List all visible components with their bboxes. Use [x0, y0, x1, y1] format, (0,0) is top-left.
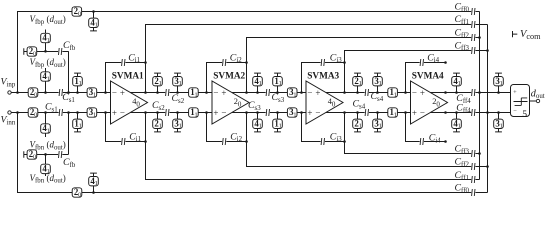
junction top rail V_fbp 4_1 tap — [44, 91, 47, 94]
junction C_i2 bottom at output vertical — [245, 140, 248, 143]
label V_fbp (d_out) at rail — [30, 57, 66, 69]
switch 4_1 bottom stage4 with V_com tee — [452, 113, 462, 132]
svg-text:+: + — [315, 88, 320, 98]
junction C_i3 top at output vertical — [343, 61, 346, 64]
switch 3_1 bottom input rail — [87, 107, 97, 118]
label C_s1 top — [62, 92, 75, 104]
svg-text:+: + — [513, 89, 517, 96]
svg-text:1: 1 — [293, 111, 296, 118]
svg-text:1: 1 — [500, 80, 503, 87]
label C_i3 top — [330, 52, 342, 64]
capacitor C_ff1 top — [471, 20, 475, 28]
wire summing-node vertical left — [479, 12, 481, 180]
svg-text:−: − — [307, 88, 312, 98]
svg-text:+: + — [213, 108, 218, 118]
switch 3_1 top input rail — [87, 87, 97, 98]
wire bottom V_fbn via 4_1 branch at input rail — [45, 113, 47, 138]
switch 2_0 bottom C_fb row — [27, 149, 37, 160]
svg-text:1: 1 — [95, 180, 98, 187]
junction input bottom node — [16, 111, 19, 114]
junction C_i1 bottom at output vertical — [144, 140, 147, 143]
switch 4_1 bottom V_fbn to rail — [41, 123, 51, 134]
junction top rail 3_1 tap at comparator — [497, 91, 500, 94]
label V_fbn (d_out) lower — [30, 173, 66, 185]
capacitor C_fb bottom — [58, 150, 62, 158]
label C_ff3 top bus — [455, 40, 470, 52]
capacitor C_s1 bottom — [59, 108, 63, 116]
switch 4_1 top C_fb row to V_fbp — [41, 33, 51, 44]
junction bottom bus 4_1 tap — [92, 191, 95, 194]
svg-text:1: 1 — [47, 75, 50, 82]
capacitor C_s1 top — [59, 88, 63, 96]
switch 1_1 top stage2 with V_com tee — [273, 73, 283, 92]
junction C_i1 top at output vertical — [144, 61, 147, 64]
svg-text:−: − — [213, 88, 218, 98]
label C_ff2 top bus — [455, 28, 470, 40]
junction SVMA2 bottom output node — [245, 111, 248, 114]
V_com tee top C_fb row — [24, 48, 27, 54]
wire SVMA2 bottom output to C_ff2 bus — [247, 113, 488, 167]
wire C_i1 top feedback loop — [106, 63, 146, 93]
junction C_i4 top at output vertical — [444, 61, 447, 64]
junction bottom rail 1_1 tap — [76, 111, 79, 114]
junction left summing vertical at top rail — [478, 91, 481, 94]
switch 2_0 top input rail — [28, 87, 38, 98]
junction C_ff2 bottom on right summing vertical — [486, 165, 489, 168]
wire C_i4 top feedback loop — [406, 63, 446, 93]
label C_ff0 bottom bus — [455, 183, 470, 195]
svg-text:1: 1 — [195, 111, 198, 118]
wire comparator output — [530, 100, 537, 102]
switch 1_1 series bottom stage3 — [388, 107, 398, 118]
wire bottom rail (negative signal path) — [11, 112, 510, 114]
label C_s4 top — [371, 91, 384, 103]
label V_fbn (d_out) at rail — [30, 140, 66, 152]
switch 2_1 top stage3 with V_com tee — [353, 73, 363, 92]
svg-text:0: 0 — [33, 153, 36, 160]
capacitor C_ff2 top — [471, 33, 475, 41]
svg-text:1: 1 — [379, 123, 382, 130]
switch 2_0 bottom input rail — [28, 107, 38, 118]
label C_s4 bottom — [353, 99, 366, 111]
junction SVMA4 bottom input node — [404, 111, 407, 114]
capacitor C_ff4 bottom — [471, 108, 475, 116]
wire SVMA3 bottom output to C_ff3 bus — [345, 113, 480, 154]
capacitor C_i2 bottom — [222, 137, 226, 145]
capacitor C_ff0 top — [471, 7, 475, 15]
junction C_i2 top at output vertical — [245, 61, 248, 64]
svg-text:−: − — [120, 108, 125, 118]
switch 4_1 top stage2 with V_com tee — [253, 73, 263, 92]
svg-text:1: 1 — [394, 91, 397, 98]
switch 3_1 series top stage2 — [287, 87, 297, 98]
junction SVMA1 top input node — [104, 91, 107, 94]
switch 2_1 bottom stage3 with V_com tee — [353, 113, 363, 132]
junction SVMA3 top output node — [343, 91, 346, 94]
label C_ff1 bottom bus — [455, 170, 470, 182]
junction input top node — [16, 91, 19, 94]
junction C_i4 bottom at output vertical — [444, 140, 447, 143]
label V_com legend — [520, 29, 541, 41]
svg-text:+: + — [412, 108, 417, 118]
label C_i1 top — [128, 52, 140, 64]
svg-text:1: 1 — [95, 22, 98, 29]
switch 3_1 top comparator with V_com tee — [494, 73, 504, 92]
junction bottom rail 4_1 tap stage2 — [256, 111, 259, 114]
switch 1_1 series top stage3 — [388, 87, 398, 98]
svg-text:1: 1 — [458, 123, 461, 130]
svg-text:−: − — [221, 108, 226, 118]
junction SVMA4 top input node — [404, 91, 407, 94]
wire C_i4 bottom feedback loop — [406, 113, 446, 142]
capacitor C_ff1 bottom — [471, 175, 475, 183]
svg-text:+: + — [307, 108, 312, 118]
capacitor C_s3 bottom — [266, 108, 270, 116]
terminal V_inn — [8, 111, 11, 114]
svg-text:1: 1 — [47, 37, 50, 44]
svg-text:1: 1 — [379, 80, 382, 87]
capacitor C_s4 bottom — [365, 108, 369, 116]
capacitor C_ff2 bottom — [471, 162, 475, 170]
label C_s2 bottom — [152, 100, 165, 112]
junction top C_fb row 4_1 tap — [44, 50, 47, 53]
switch 1_1 top input with V_com tee — [73, 73, 83, 92]
junction top rail 3_1 tap stage1 — [176, 91, 179, 94]
switch 2_0 top C_fb row — [27, 46, 37, 57]
switch 3_1 bottom comparator with V_com tee — [494, 113, 504, 132]
junction SVMA4 top output node — [444, 91, 447, 94]
legend V_com tee symbol — [513, 31, 518, 37]
capacitor C_i3 bottom — [321, 137, 325, 145]
comparator U5 with hysteresis — [511, 85, 530, 121]
junction top rail 1_1 tap — [76, 91, 79, 94]
capacitor C_ff3 top — [471, 46, 475, 54]
junction bottom rail 3_1 tap at comparator — [497, 111, 500, 114]
wire bottom V_fbn via 4_1 branch at C_fb row — [45, 154, 47, 176]
capacitor C_ff3 bottom — [471, 149, 475, 157]
capacitor C_i3 top — [321, 58, 325, 66]
svg-text:−: − — [112, 88, 117, 98]
op-amp SVMA1 — [111, 71, 148, 124]
junction top rail 4_1 tap stage2 — [256, 91, 259, 94]
svg-text:−: − — [315, 108, 320, 118]
svg-text:1: 1 — [359, 123, 362, 130]
svg-text:1: 1 — [259, 123, 262, 130]
junction C_ff2 top on left summing vertical — [478, 36, 481, 39]
capacitor C_s3 top — [266, 88, 270, 96]
label C_i1 bottom — [129, 131, 141, 143]
capacitor C_s2 bottom — [165, 108, 169, 116]
svg-text:1: 1 — [159, 80, 162, 87]
svg-text:1: 1 — [93, 111, 96, 118]
switch 3_1 bottom stage1 with V_com tee — [173, 113, 183, 132]
junction C_i3 bottom at output vertical — [343, 140, 346, 143]
svg-text:−: − — [420, 108, 425, 118]
svg-text:1: 1 — [47, 127, 50, 134]
switch 1_1 series bottom stage1 — [189, 107, 199, 118]
switch 4_1 top V_fbp to rail — [41, 71, 51, 82]
label V_fbp (d_out) upper — [30, 14, 66, 26]
capacitor C_ff0 bottom — [471, 188, 475, 196]
switch 1_1 series top stage1 — [189, 87, 199, 98]
svg-text:0: 0 — [78, 191, 81, 198]
wire C_i3 bottom feedback loop — [302, 113, 345, 142]
wire C_i2 bottom feedback loop — [207, 113, 247, 142]
svg-text:5: 5 — [522, 109, 527, 120]
wire SVMA3 top output to C_ff3 bus — [345, 51, 488, 93]
wire C_i2 top feedback loop — [207, 63, 247, 93]
capacitor C_i4 bottom — [420, 137, 424, 145]
junction bottom rail 2_1 tap stage3 — [356, 111, 359, 114]
wire SVMA2 top output to C_ff2 bus — [247, 38, 480, 93]
switch 2_1 bottom stage1 with V_com tee — [153, 113, 163, 132]
label C_ff4 bottom — [456, 103, 471, 115]
capacitor C_i2 top — [222, 58, 226, 66]
capacitor C_s2 top — [165, 88, 169, 96]
wire bottom feed-forward bus from input node (C_ff0 net) — [18, 113, 488, 193]
svg-text:0: 0 — [34, 91, 37, 98]
label C_i2 top — [230, 52, 242, 64]
label C_s1 bottom — [45, 102, 58, 114]
svg-text:+: + — [112, 108, 117, 118]
svg-text:SVMA4: SVMA4 — [412, 71, 444, 81]
svg-text:SVMA2: SVMA2 — [213, 71, 245, 81]
junction bottom rail 3_1 tap stage3 — [376, 111, 379, 114]
op-amp SVMA4 — [411, 71, 448, 124]
junction SVMA3 top input node — [300, 91, 303, 94]
label C_fb top — [63, 40, 76, 52]
label C_ff3 bottom bus — [455, 144, 470, 156]
label C_s2 top — [172, 93, 185, 105]
junction C_ff3 bottom on left summing vertical — [478, 152, 481, 155]
switch 1_1 bottom input with V_com tee — [73, 113, 83, 132]
junction top rail 3_1 tap stage3 — [376, 91, 379, 94]
wire C_i3 top feedback loop — [302, 63, 345, 93]
wire bottom C_fb feedback row — [26, 113, 68, 155]
wire top rail (positive signal path) — [11, 92, 510, 94]
svg-text:+: + — [420, 88, 425, 98]
svg-text:1: 1 — [458, 80, 461, 87]
label C_s3 bottom — [248, 100, 261, 112]
junction top bus 4_1 tap — [92, 10, 95, 13]
label C_fb bottom — [63, 157, 76, 169]
switch 4_1 top bus with V_com tee — [89, 12, 99, 31]
junction right summing vertical at bottom rail — [486, 111, 489, 114]
capacitor C_s4 top — [365, 88, 369, 96]
svg-text:0: 0 — [78, 10, 81, 17]
svg-text:1: 1 — [279, 80, 282, 87]
junction SVMA2 top input node — [205, 91, 208, 94]
switch 3_1 top stage1 with V_com tee — [173, 73, 183, 92]
svg-text:SVMA3: SVMA3 — [307, 71, 339, 81]
junction C_ff3 top on right summing vertical — [486, 49, 489, 52]
svg-text:1: 1 — [79, 123, 82, 130]
junction top rail C_fb tap — [67, 91, 70, 94]
capacitor C_fb top — [58, 47, 62, 55]
wire SVMA1 bottom output to C_ff1 bus — [146, 113, 480, 180]
junction top rail 4_1 tap stage4 — [455, 91, 458, 94]
junction SVMA1 top output node — [144, 91, 147, 94]
svg-text:+: + — [221, 88, 226, 98]
svg-text:1: 1 — [259, 80, 262, 87]
wire SVMA1 top output to C_ff1 bus — [146, 25, 488, 93]
svg-text:1: 1 — [359, 80, 362, 87]
label C_i3 bottom — [330, 131, 342, 143]
junction SVMA1 bottom output node — [144, 111, 147, 114]
svg-text:+: + — [120, 88, 125, 98]
svg-text:1: 1 — [195, 91, 198, 98]
label C_ff0 top bus — [455, 2, 470, 14]
junction top rail 2_1 tap stage3 — [356, 91, 359, 94]
junction top rail 1_1 tap stage2 — [276, 91, 279, 94]
junction bottom rail 1_1 tap stage2 — [276, 111, 279, 114]
junction bottom rail 3_1 tap stage1 — [176, 111, 179, 114]
terminal V_inp — [8, 91, 11, 94]
wire summing-node vertical right — [487, 25, 489, 193]
switch 4_1 bottom bus with V_com tee — [89, 173, 99, 192]
junction bottom rail C_fb tap — [67, 111, 70, 114]
svg-text:−: − — [513, 108, 517, 115]
switch 2_1 top stage1 with V_com tee — [153, 73, 163, 92]
label C_s3 top — [272, 92, 285, 104]
switch 3_1 bottom stage3 with V_com tee — [373, 113, 383, 132]
svg-text:SVMA1: SVMA1 — [112, 71, 144, 81]
label C_i2 bottom — [230, 131, 242, 143]
label C_ff2 bottom bus — [455, 157, 470, 169]
switch 2_0 top feed-forward bus — [72, 6, 82, 17]
switch 4_1 bottom C_fb row to V_fbn — [41, 164, 51, 175]
svg-text:1: 1 — [179, 80, 182, 87]
junction bottom C_fb row 4_1 tap — [44, 153, 47, 156]
junction SVMA2 bottom input node — [205, 111, 208, 114]
capacitor C_i4 top — [420, 58, 424, 66]
wire C_i1 bottom feedback loop — [106, 113, 146, 142]
op-amp SVMA2 — [212, 71, 249, 124]
junction SVMA2 top output node — [245, 91, 248, 94]
V_com tee bottom C_fb row — [24, 151, 27, 157]
junction SVMA1 bottom input node — [104, 111, 107, 114]
label C_ff4 top — [456, 93, 471, 105]
wire top feed-forward bus from input node (C_ff0 net) — [18, 12, 480, 93]
svg-text:1: 1 — [279, 123, 282, 130]
junction SVMA4 bottom output node — [444, 111, 447, 114]
svg-text:1: 1 — [500, 123, 503, 130]
label V_inp — [1, 77, 16, 89]
label C_i4 bottom — [429, 133, 441, 145]
svg-text:1: 1 — [394, 111, 397, 118]
svg-text:1: 1 — [159, 123, 162, 130]
svg-text:1: 1 — [293, 91, 296, 98]
label C_i4 top — [427, 52, 439, 64]
op-amp SVMA3 — [306, 71, 343, 124]
label C_ff1 top bus — [455, 14, 470, 26]
switch 2_0 bottom feed-forward bus — [72, 187, 82, 198]
svg-text:1: 1 — [79, 80, 82, 87]
wire top V_fbp via 4_1 branch at C_fb row — [45, 30, 47, 52]
svg-text:1: 1 — [179, 123, 182, 130]
label d_out at comparator output — [531, 88, 545, 100]
junction bottom rail 2_1 tap stage1 — [156, 111, 159, 114]
junction SVMA3 bottom input node — [300, 111, 303, 114]
capacitor C_i1 bottom — [121, 137, 125, 145]
wire top V_fbp via 4_1 branch at input rail — [45, 68, 47, 93]
label V_inn — [1, 115, 16, 127]
junction SVMA3 bottom output node — [343, 111, 346, 114]
switch 1_1 bottom stage2 with V_com tee — [273, 113, 283, 132]
svg-text:1: 1 — [93, 91, 96, 98]
svg-text:0: 0 — [34, 111, 37, 118]
junction bottom rail V_fbn 4_1 tap — [44, 111, 47, 114]
junction bottom rail 4_1 tap stage4 — [455, 111, 458, 114]
capacitor C_i1 top — [121, 58, 125, 66]
wire top C_fb feedback row — [26, 51, 68, 92]
svg-text:−: − — [412, 88, 417, 98]
switch 4_1 top stage4 with V_com tee — [452, 73, 462, 92]
switch 3_1 series bottom stage2 — [287, 107, 297, 118]
terminal d_out — [536, 99, 539, 102]
junction top rail 2_1 tap stage1 — [156, 91, 159, 94]
capacitor C_ff4 top — [471, 88, 475, 96]
switch 3_1 top stage3 with V_com tee — [373, 73, 383, 92]
switch 4_1 bottom stage2 with V_com tee — [253, 113, 263, 132]
